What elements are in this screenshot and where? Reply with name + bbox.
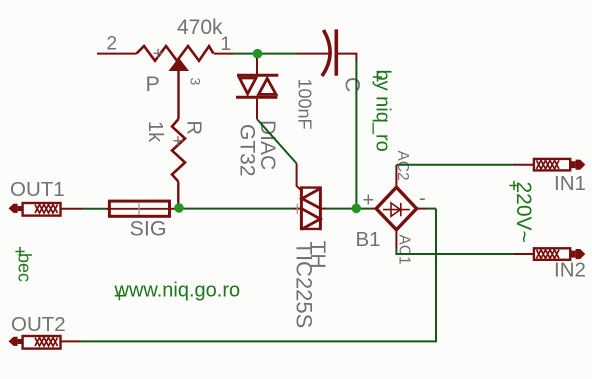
fuse origin tick <box>138 203 140 214</box>
junction node SIG <box>174 203 184 213</box>
svg-text:AC1: AC1 <box>396 235 413 265</box>
connector IN1 jack <box>534 159 585 171</box>
svg-text:bec: bec <box>15 253 35 282</box>
junction node top <box>253 49 263 59</box>
connector OUT1 jack <box>9 203 61 216</box>
connector OUT2 jack <box>9 336 61 349</box>
svg-text:1k: 1k <box>144 121 166 143</box>
svg-text:by niq_ro: by niq_ro <box>372 70 394 152</box>
triac TH <box>301 186 320 230</box>
svg-text:100nF: 100nF <box>295 79 315 130</box>
svg-text:GT32: GT32 <box>236 124 259 177</box>
svg-text:P: P <box>146 72 160 96</box>
svg-text:470k: 470k <box>177 16 223 39</box>
svg-text:3: 3 <box>188 78 204 86</box>
origin cross bec <box>15 247 24 256</box>
wire triac stub left <box>294 208 302 210</box>
pot wiper arrow <box>170 59 188 71</box>
wire fuse to SIG junction <box>170 208 177 210</box>
origin cross by <box>373 72 382 81</box>
wire bridge minus down and to OUT2 <box>81 209 437 342</box>
svg-text:-: - <box>419 188 426 210</box>
svg-text:1: 1 <box>221 34 232 55</box>
bridge inner diode <box>383 203 410 216</box>
wire pot pin2 lead <box>97 53 137 55</box>
wire bridge left stub <box>372 208 377 210</box>
bridge B1 diamond <box>376 187 416 230</box>
resistor origin cross <box>174 136 183 145</box>
bridge pin AC1 lead <box>395 230 397 248</box>
wire AC2 to IN1 <box>396 164 513 166</box>
svg-text:220V~: 220V~ <box>512 182 535 243</box>
wire OUT1 jack to fuse <box>61 208 110 210</box>
origin cross 220V <box>509 181 518 190</box>
bridge minus lead <box>417 208 427 210</box>
svg-text:B1: B1 <box>356 228 381 251</box>
svg-text:OUT1: OUT1 <box>10 178 65 201</box>
svg-text:IN2: IN2 <box>554 259 586 282</box>
triac origin tick <box>296 204 298 214</box>
junction node triac-bridge <box>352 204 362 214</box>
capacitor C 100nF <box>322 29 356 76</box>
svg-text:OUT2: OUT2 <box>11 313 66 336</box>
svg-text:SIG: SIG <box>130 217 167 241</box>
wire gate drop <box>297 164 302 191</box>
bridge pin AC2 lead <box>395 165 397 187</box>
pot origin cross <box>154 49 163 58</box>
svg-text:+: + <box>363 190 375 212</box>
diac GT32 <box>236 75 278 119</box>
fuse SIG <box>109 201 169 216</box>
wire triac to bridge junction <box>327 208 372 210</box>
wire SIG junction to triac <box>184 208 294 210</box>
wire junction down to diac <box>256 58 258 75</box>
wire AC1 to IN2 <box>396 248 513 254</box>
svg-text:www.niq.go.ro: www.niq.go.ro <box>114 280 241 302</box>
resistor R 1k <box>172 119 185 204</box>
wire diac to triac gate diagonal <box>257 119 297 164</box>
connector IN2 jack <box>534 248 585 259</box>
wire pot pin1 to junction <box>233 53 297 55</box>
wire capacitor down to triac node <box>355 60 357 209</box>
svg-text:R: R <box>183 121 205 135</box>
svg-text:2: 2 <box>107 34 118 55</box>
svg-text:IN1: IN1 <box>554 172 586 195</box>
potentiometer P 470k <box>137 46 234 119</box>
origin cross www <box>115 291 124 300</box>
wire junction to capacitor <box>297 53 330 55</box>
svg-text:C: C <box>341 77 364 92</box>
svg-text:TIC225S: TIC225S <box>292 242 317 329</box>
wire triac stub right <box>321 208 327 210</box>
